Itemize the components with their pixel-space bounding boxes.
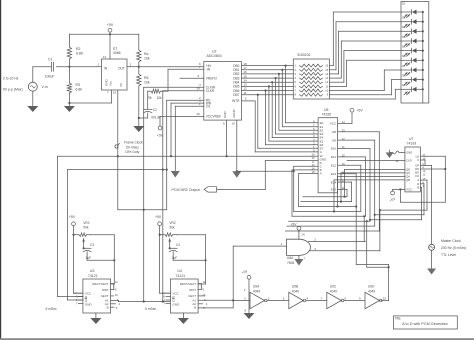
svg-text:U9A: U9A	[253, 285, 260, 289]
svg-text:5V p-p (Max): 5V p-p (Max)	[3, 88, 23, 92]
svg-text:CEXT: CEXT	[188, 294, 196, 298]
svg-text:R6: R6	[148, 96, 152, 100]
svg-text:E12: E12	[331, 164, 337, 168]
svg-text:E11: E11	[331, 155, 336, 159]
svg-text:.001uF: .001uF	[151, 116, 161, 120]
svg-text:2 to 10 Hz: 2 to 10 Hz	[3, 77, 19, 81]
svg-text:E13: E13	[331, 172, 337, 176]
svg-text:14: 14	[395, 159, 399, 163]
svg-text:U9B: U9B	[292, 285, 298, 289]
svg-text:5 mSec: 5 mSec	[145, 307, 157, 311]
svg-text:4049: 4049	[253, 289, 260, 293]
svg-text:+5V: +5V	[290, 223, 297, 227]
svg-text:Title: Title	[395, 317, 401, 321]
svg-text:2uF: 2uF	[86, 256, 92, 260]
svg-text:10k: 10k	[144, 57, 150, 61]
svg-text:C3: C3	[90, 243, 94, 247]
svg-text:74150: 74150	[322, 113, 332, 117]
svg-text:50k: 50k	[169, 226, 175, 230]
svg-text:TTL Level: TTL Level	[441, 253, 456, 257]
svg-text:U7: U7	[409, 137, 414, 141]
svg-text:U8A: U8A	[287, 256, 294, 260]
svg-text:50k: 50k	[83, 226, 89, 230]
svg-text:OUT: OUT	[118, 67, 125, 71]
svg-text:VR2: VR2	[169, 221, 175, 225]
svg-text:U5: U5	[324, 108, 329, 112]
svg-text:C2: C2	[153, 108, 157, 112]
svg-text:+5V: +5V	[157, 134, 164, 138]
svg-text:14: 14	[302, 233, 306, 237]
svg-text:QB: QB	[406, 178, 410, 182]
svg-text:RINT: RINT	[102, 288, 109, 292]
svg-text:4049: 4049	[330, 289, 337, 293]
svg-text:10% Duty: 10% Duty	[125, 150, 140, 154]
svg-text:E8: E8	[332, 130, 336, 134]
svg-text:VCCVREF: VCCVREF	[206, 115, 221, 119]
svg-text:E10: E10	[331, 147, 337, 151]
svg-text:V-in: V-in	[42, 85, 48, 89]
svg-text:+5V: +5V	[107, 23, 114, 27]
svg-text:CEXT: CEXT	[101, 294, 109, 298]
svg-text:REXT/CEXT: REXT/CEXT	[180, 282, 196, 286]
svg-text:200 Hz (5 mSec): 200 Hz (5 mSec)	[441, 246, 466, 250]
svg-text:R5: R5	[144, 76, 149, 80]
svg-text:11: 11	[243, 91, 246, 95]
svg-text:VR2: VR2	[83, 221, 89, 225]
svg-text:14: 14	[103, 55, 107, 59]
svg-text:INTR: INTR	[232, 99, 240, 103]
svg-text:U3: U3	[90, 269, 95, 273]
svg-text:CLKR: CLKR	[206, 89, 215, 93]
svg-text:C1: C1	[48, 58, 53, 62]
svg-text:ADC0804: ADC0804	[207, 54, 222, 58]
svg-text:Frame Clock: Frame Clock	[124, 141, 143, 145]
svg-text:GND: GND	[406, 151, 412, 155]
svg-text:VCC: VCC	[406, 188, 412, 192]
svg-text:B: B	[107, 305, 109, 309]
svg-text:10k: 10k	[157, 96, 163, 100]
svg-text:RINT: RINT	[189, 288, 196, 292]
svg-text:DB7: DB7	[233, 93, 239, 97]
svg-text:AGND: AGND	[232, 108, 236, 118]
svg-text:REXT/CEXT: REXT/CEXT	[92, 282, 108, 286]
svg-text:PCM NRZ Output: PCM NRZ Output	[172, 188, 200, 192]
svg-text:GND: GND	[223, 111, 227, 119]
svg-text:74121: 74121	[175, 274, 185, 278]
svg-text:+5V: +5V	[356, 109, 363, 113]
svg-text:2uF: 2uF	[172, 256, 178, 260]
svg-text:CS: CS	[206, 105, 210, 109]
svg-text:E14: E14	[331, 180, 337, 184]
svg-text:+5V: +5V	[155, 215, 162, 219]
svg-text:74193: 74193	[407, 142, 417, 146]
svg-text:+5V: +5V	[69, 215, 76, 219]
svg-text:C: C	[417, 158, 419, 162]
svg-text:VREF/2: VREF/2	[206, 77, 217, 81]
svg-text:50 mSec: 50 mSec	[126, 145, 139, 149]
svg-text:10: 10	[232, 122, 236, 126]
svg-text:U1: U1	[113, 46, 118, 50]
svg-text:19: 19	[197, 87, 201, 91]
svg-text:U9D: U9D	[368, 285, 375, 289]
svg-text:A: A	[320, 172, 322, 176]
svg-text:VCC: VCC	[330, 122, 337, 126]
svg-text:Vcc: Vcc	[109, 80, 113, 86]
svg-text:4049: 4049	[292, 289, 299, 293]
svg-text:74121: 74121	[88, 274, 98, 278]
svg-text:U4: U4	[177, 269, 182, 273]
svg-text:4049: 4049	[368, 289, 375, 293]
svg-text:D1: D1	[402, 2, 406, 6]
svg-text:GND: GND	[85, 302, 93, 306]
svg-text:3100231: 3100231	[297, 53, 311, 57]
svg-text:4066: 4066	[113, 51, 121, 55]
svg-text:B: B	[194, 305, 196, 309]
svg-text:15: 15	[113, 91, 117, 95]
svg-text:6.8k: 6.8k	[76, 88, 83, 92]
svg-text:A to D with PCM Generator: A to D with PCM Generator	[402, 322, 449, 326]
svg-text:-IN: -IN	[206, 68, 211, 72]
svg-text:10: 10	[383, 296, 387, 300]
svg-text:5 mSec: 5 mSec	[46, 307, 58, 311]
svg-text:10k: 10k	[144, 81, 150, 85]
svg-text:R3: R3	[76, 83, 81, 87]
svg-text:U9C: U9C	[330, 285, 337, 289]
svg-text:Ra: Ra	[144, 52, 149, 56]
svg-text:U2: U2	[212, 49, 217, 53]
svg-text:20: 20	[197, 112, 201, 116]
svg-text:100uF: 100uF	[45, 75, 55, 79]
svg-text:CLR: CLR	[406, 159, 412, 163]
svg-text:6.8K: 6.8K	[76, 52, 84, 56]
svg-text:C4: C4	[176, 243, 180, 247]
svg-text:E9: E9	[332, 138, 336, 142]
svg-text:B: B	[417, 186, 419, 190]
svg-text:GND: GND	[172, 302, 180, 306]
svg-text:E15: E15	[331, 188, 337, 192]
svg-text:R2: R2	[76, 47, 81, 51]
svg-text:Master Clock: Master Clock	[441, 239, 461, 243]
svg-text:7408: 7408	[287, 261, 294, 265]
